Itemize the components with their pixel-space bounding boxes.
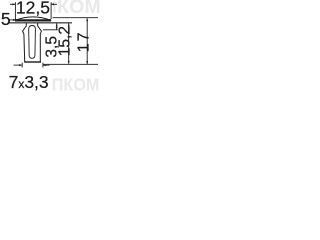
central slot (stadium shape): [29, 26, 36, 59]
svg-text:5: 5: [1, 9, 11, 29]
left leg outer edge: [23, 31, 25, 62]
12,5 right arrow (outside, pointing left): [51, 3, 57, 5]
5 leader arrow pointing right at cap edge: [9, 19, 16, 21]
svg-text:7x3,3: 7x3,3: [9, 72, 49, 91]
svg-text:17: 17: [75, 31, 92, 53]
cap top arc: [15, 17, 51, 21]
svg-text:15,2: 15,2: [57, 26, 74, 56]
dimension text 3,5 (rotated): [44, 36, 61, 58]
neck right edge: [37, 23, 39, 26]
dimension text 5: [1, 9, 11, 29]
bottom dim extension line left: [21, 63, 23, 68]
right barb flare: [38, 26, 42, 31]
extension line left of 12,5 dimension: [14, 2, 16, 20]
dimension text 12,5: [16, 0, 50, 17]
right leg outer edge: [40, 31, 41, 62]
bottom dim extension line right: [42, 63, 44, 68]
extension line right of 12,5 dimension: [50, 2, 52, 19]
dimension text 15,2 (rotated): [57, 26, 74, 56]
left barb flare: [23, 26, 27, 31]
17 top extension line: [53, 17, 99, 19]
svg-text:КОМ: КОМ: [57, 0, 100, 18]
15,2 dimension line with arrows: [68, 23, 70, 63]
watermark bottom right: ПКОМ: [52, 75, 100, 95]
svg-text:12,5: 12,5: [16, 0, 50, 17]
bottom extension line to the right (for 15,2 and 17 arrows): [43, 63, 98, 65]
background: [0, 0, 100, 91]
svg-text:ПКОМ: ПКОМ: [52, 75, 100, 91]
dimension text 17 (rotated): [75, 31, 92, 53]
dimension text 7x3,3: [9, 72, 49, 92]
12,5 left arrow (outside, pointing right): [10, 3, 15, 5]
7x3,3 left arrow (outside, pointing right): [14, 64, 23, 66]
watermark top right: КОМ: [57, 0, 101, 18]
neck left edge: [25, 23, 27, 26]
watermark top: partial letter И: [53, 1, 55, 13]
part bottom edge: [24, 61, 41, 62]
cap body (dark bar): [15, 19, 51, 22]
shoulder extension line (for 3,5): [43, 29, 58, 31]
7x3,3 right arrow (outside, pointing left): [43, 64, 50, 66]
3,5 dimension line with arrows: [56, 23, 58, 29]
17 dimension line with arrows: [86, 18, 88, 64]
under-cap line (extends left to 5-dim and right to 15,2 dim): [9, 22, 72, 23]
